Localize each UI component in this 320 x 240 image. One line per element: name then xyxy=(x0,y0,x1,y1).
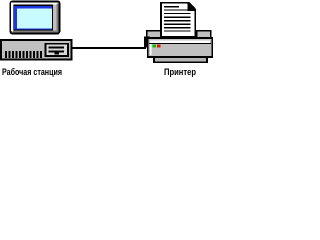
printer base tray xyxy=(154,57,207,62)
workstation monitor bevel shadow xyxy=(13,4,58,32)
printer LED green xyxy=(152,44,156,47)
svg-text:Рабочая станция: Рабочая станция xyxy=(2,67,62,77)
printer left ear block xyxy=(147,31,161,39)
workstation screen xyxy=(17,8,52,28)
drive bay top slot xyxy=(49,47,65,49)
svg-text:Принтер: Принтер xyxy=(164,67,196,77)
printer body xyxy=(148,38,213,57)
printer body left highlight xyxy=(150,41,152,56)
workstation monitor bevel highlight xyxy=(12,4,57,32)
workstation monitor outer frame xyxy=(11,2,60,34)
printer LED red xyxy=(157,44,161,47)
printer right ear block xyxy=(197,31,211,39)
workstation drive bay xyxy=(46,44,69,56)
workstation screen blue border xyxy=(14,6,52,30)
drive bay bottom slot xyxy=(49,50,65,52)
printer paper folded corner xyxy=(188,2,197,11)
printer body crease line xyxy=(149,43,211,44)
drive bay slider knob xyxy=(55,52,60,54)
wire xyxy=(68,47,146,49)
workstation screen black inner edge xyxy=(14,5,54,31)
workstation system unit case xyxy=(1,40,72,59)
printer connector tab xyxy=(144,37,150,48)
printer body highlight band xyxy=(150,41,210,44)
printer paper text lines xyxy=(164,6,191,32)
printer paper sheet xyxy=(161,3,195,37)
workstation case vents xyxy=(5,51,42,58)
